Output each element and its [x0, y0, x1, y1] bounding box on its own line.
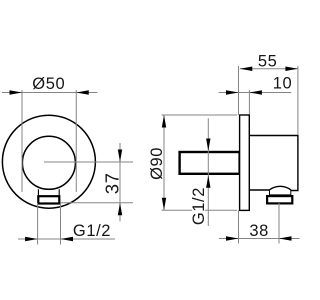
outlet cap (thick rect): [267, 196, 292, 203]
svg-text:38: 38: [249, 222, 269, 240]
dimension Ø50: [21, 90, 23, 192]
flange rect (10 deep): [240, 115, 250, 210]
dimension Ø90 (vertical, left of side view): [162, 114, 238, 116]
wall face extension line (above flange): [238, 66, 240, 115]
outlet neck side lines (under circle): [38, 189, 59, 195]
inner circle Ø50 body: [22, 136, 75, 189]
svg-text:G1/2: G1/2: [73, 222, 111, 240]
svg-text:55: 55: [258, 53, 278, 71]
dimension 37 (vertical, right of front view): [119, 143, 121, 222]
svg-text:Ø50: Ø50: [32, 75, 65, 93]
centerline from circle centre to 37-dim: [44, 161, 133, 163]
body block (Ø50 cylinder side): [249, 136, 298, 191]
wall face extension line (below flange): [238, 210, 240, 243]
svg-text:Ø90: Ø90: [148, 147, 166, 180]
dimension 55 (top): [297, 66, 299, 135]
outlet thin collar: [270, 190, 291, 195]
dimension 38 (bottom): [278, 203, 280, 244]
svg-text:10: 10: [273, 75, 293, 93]
outlet cap nut (thick rect): [38, 196, 59, 203]
dimension 10 (flange depth): [248, 90, 250, 115]
outlet dome arc: [269, 186, 291, 190]
svg-text:G1/2: G1/2: [190, 187, 208, 225]
dimension G1/2 (front, bottom): [37, 203, 39, 245]
extension line from nut bottom to 37-dim: [61, 202, 134, 204]
outer circle Ø90 escutcheon: [2, 115, 95, 208]
dimension G1/2 (stub, vertical): [207, 118, 209, 226]
wall stub G1/2 (thick rect behind wall): [180, 152, 240, 174]
svg-text:37: 37: [101, 173, 122, 195]
